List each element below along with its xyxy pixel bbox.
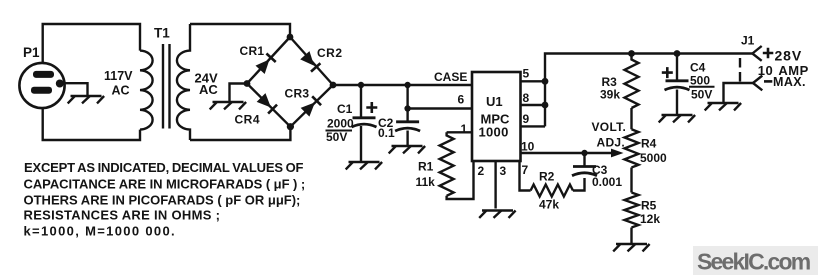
capacitor C3 [572, 167, 597, 176]
svg-text:AC: AC [112, 84, 130, 98]
svg-text:T1: T1 [154, 26, 170, 41]
plug P1 [19, 63, 64, 108]
capacitor C2 [395, 122, 420, 131]
svg-text:50V: 50V [691, 88, 712, 102]
wire R4 to R5 [630, 168, 632, 193]
diode CR4 [257, 93, 277, 113]
svg-text:8: 8 [523, 91, 530, 105]
capacitor C4 [665, 81, 690, 90]
diode CR3 [301, 96, 321, 116]
wire primary bottom rail [43, 108, 140, 140]
svg-text:R1: R1 [418, 160, 434, 174]
svg-text:J1: J1 [741, 34, 755, 48]
wire P1 ground pin [63, 83, 88, 95]
potentiometer R4 [625, 129, 639, 167]
wire R2 to C3 [573, 178, 585, 191]
svg-text:117V: 117V [104, 69, 133, 83]
svg-text:11k: 11k [416, 175, 436, 189]
svg-text:RESISTANCES ARE IN OHMS ;: RESISTANCES ARE IN OHMS ; [24, 208, 221, 223]
wire output bus [545, 54, 752, 127]
wire R3 to R4 [630, 108, 632, 129]
svg-text:ADJ.: ADJ. [597, 135, 626, 149]
bridge edge left-bottom [247, 84, 290, 127]
ground C2 [389, 146, 425, 153]
transformer T1 core [163, 44, 170, 129]
svg-text:12k: 12k [640, 212, 660, 226]
ground pin3 [479, 211, 515, 218]
svg-text:CR4: CR4 [235, 112, 261, 126]
wire bridge left vertex to ground [230, 84, 248, 102]
resistor R5 [625, 193, 639, 228]
label J1 plus [763, 48, 774, 58]
wire pin 3 [494, 161, 496, 209]
op-amp U1 box [472, 72, 521, 161]
wire C2 bottom [406, 131, 408, 146]
wire pin 1 [447, 131, 472, 133]
node bridge left [244, 80, 251, 87]
connector J1 plus [752, 46, 761, 61]
node C3 tap [581, 150, 587, 156]
bridge edge left-top [247, 37, 290, 84]
node C4 top [674, 50, 681, 57]
svg-text:3: 3 [500, 164, 507, 178]
node C2 tap [404, 82, 410, 88]
svg-text:CASE: CASE [434, 70, 467, 84]
wire R1 bottom to pin 2 [447, 161, 474, 199]
connector J1 minus [753, 76, 762, 91]
svg-text:0.1: 0.1 [378, 126, 395, 140]
note text block [24, 160, 306, 238]
wire DC rail to U1 [333, 84, 472, 86]
potentiometer wiper arrow [611, 149, 624, 158]
wire secondary top rail [190, 24, 290, 37]
svg-text:SeekIC.com: SeekIC.com [697, 249, 811, 275]
wire C4 top [676, 54, 678, 81]
svg-text:k=1000, M=1000 000.: k=1000, M=1000 000. [24, 223, 177, 238]
node pin6 tap [404, 105, 410, 111]
svg-text:MAX.: MAX. [773, 75, 806, 89]
node pin8 bus [542, 102, 549, 109]
label C1 plus [366, 102, 377, 113]
ground C4 [659, 115, 695, 122]
wire C4 bottom [676, 90, 678, 115]
svg-text:CR1: CR1 [240, 44, 265, 58]
svg-text:CR2: CR2 [317, 46, 343, 60]
ground bridge AC [210, 102, 246, 109]
svg-text:VOLT.: VOLT. [592, 120, 627, 134]
svg-text:P1: P1 [23, 45, 40, 60]
svg-text:500: 500 [690, 74, 710, 88]
connector J1 dashed [739, 58, 741, 83]
label C4 plus [662, 67, 673, 78]
watermark [693, 246, 818, 275]
wire pin 9 [521, 125, 546, 127]
transformer T1 primary winding [140, 51, 153, 130]
node pin5 bus [542, 78, 549, 85]
node C1 tap [358, 82, 364, 88]
wire pin 5 [521, 80, 546, 82]
svg-text:7: 7 [522, 163, 529, 177]
wire C3 top [583, 153, 585, 167]
resistor R1 [440, 132, 454, 195]
svg-text:1: 1 [461, 122, 468, 136]
svg-text:5000: 5000 [640, 151, 667, 165]
svg-text:OTHERS ARE IN PICOFARADS ( pF: OTHERS ARE IN PICOFARADS ( pF OR μμF); [24, 192, 301, 207]
ground J1 [705, 103, 741, 110]
svg-text:C1: C1 [337, 102, 353, 116]
svg-text:0.001: 0.001 [592, 175, 622, 189]
svg-text:R2: R2 [539, 170, 555, 184]
svg-text:47k: 47k [539, 198, 559, 212]
svg-text:EXCEPT AS INDICATED, DECIMAL V: EXCEPT AS INDICATED, DECIMAL VALUES OF [24, 160, 304, 175]
node bridge right [330, 82, 337, 89]
svg-text:CAPACITANCE ARE IN MICROFARADS: CAPACITANCE ARE IN MICROFARADS ( μF ) ; [24, 177, 306, 192]
svg-text:9: 9 [523, 112, 530, 126]
wire pin 10 [521, 152, 613, 154]
wire C1 top [360, 85, 362, 117]
svg-text:10: 10 [521, 140, 535, 154]
node bridge top [287, 34, 294, 41]
wire pin 7 [520, 161, 531, 191]
wire C2 top [406, 85, 408, 122]
svg-text:2: 2 [478, 164, 485, 178]
label J1 minus [764, 80, 772, 83]
wire secondary bottom rail [190, 127, 290, 140]
diode CR2 [300, 51, 320, 72]
diode CR1 [255, 53, 275, 74]
svg-text:6: 6 [458, 93, 465, 107]
node R3 top [628, 50, 635, 57]
resistor R2 [531, 185, 573, 197]
svg-text:CR3: CR3 [285, 86, 310, 100]
ground P1 [68, 96, 104, 103]
svg-text:50V: 50V [326, 130, 347, 144]
bridge edge bottom-right [290, 85, 333, 127]
svg-text:2000: 2000 [327, 117, 354, 131]
wire C1 bottom [360, 126, 362, 162]
ground C1 [346, 162, 382, 169]
wire pin 6 [408, 107, 472, 109]
svg-text:R4: R4 [641, 137, 657, 151]
bridge edge top-right [290, 37, 333, 85]
ground R5 [613, 244, 649, 251]
wire R5 bottom [630, 228, 632, 244]
svg-text:39k: 39k [600, 88, 620, 102]
wire primary top rail [43, 24, 140, 63]
svg-text:AC: AC [199, 82, 218, 97]
svg-text:C4: C4 [690, 61, 706, 75]
resistor R3 [625, 54, 639, 109]
svg-text:U1: U1 [486, 94, 503, 109]
capacitor C1 [352, 118, 377, 127]
wire pin 8 [521, 104, 546, 106]
svg-text:1000: 1000 [479, 125, 509, 140]
wire J1 minus to ground [724, 83, 754, 102]
svg-text:28V: 28V [775, 48, 803, 64]
svg-text:5: 5 [523, 67, 530, 81]
transformer T1 secondary winding [177, 24, 190, 140]
svg-text:R5: R5 [641, 199, 657, 213]
node bridge bottom [287, 123, 294, 130]
